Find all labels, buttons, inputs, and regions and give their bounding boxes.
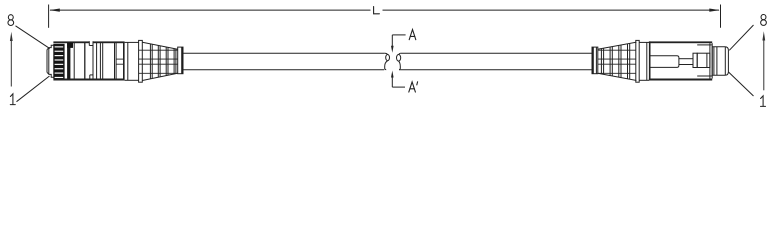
left boot taper outline (142, 42, 177, 80)
label 8 (right) (761, 15, 767, 26)
right plug body: bottom edge (649, 79, 712, 81)
right boot rib pairs (601, 43, 629, 79)
left plug body: bottom edge (53, 79, 124, 81)
label L (374, 7, 380, 14)
dimension L: left arrowhead (49, 9, 59, 12)
label 8 (left) (8, 15, 14, 26)
leader 8 to top pin (left) (16, 26, 50, 49)
pin order arrow (right) (763, 38, 765, 90)
leader 1 to bottom pin (left) (17, 76, 50, 102)
left boot raised ring (139, 40, 143, 82)
cable break right squiggle (397, 53, 401, 69)
section line A' (bottom) (392, 77, 405, 87)
right plug nose cap (712, 47, 728, 75)
label 1 (right) (761, 96, 766, 107)
section line A (top) (392, 35, 405, 47)
left plug: nose outer face (47, 45, 54, 77)
cable left segment top line (183, 52, 384, 54)
left plug contact carrier wall (67, 43, 70, 79)
right plug latch bracket (693, 45, 712, 76)
right plug latch lever (651, 56, 694, 68)
left boot end cap (178, 47, 183, 74)
right boot smooth section (639, 42, 649, 80)
dimension L: line left segment (50, 9, 371, 11)
label 1 (left) (10, 94, 15, 105)
left plug contact block with 8 pins (53, 44, 64, 79)
cable right segment top line (401, 52, 593, 54)
cable break left squiggle (384, 53, 389, 69)
leader 8 to top pin (right) (729, 25, 753, 50)
leader 1 to bottom pin (right) (729, 72, 754, 96)
left plug body: top edge (with latch notch gap) (53, 41, 89, 43)
pin order arrow (left) (10, 38, 12, 87)
dimension L: right extension line (720, 5, 722, 28)
right plug body: front verticals (710, 43, 712, 78)
dimension L: line right segment (383, 9, 720, 11)
left boot rungs (116, 50, 178, 73)
right plug body: top edge (649, 41, 712, 43)
left boot smooth section (125, 42, 139, 80)
left plug latch base block (67, 43, 73, 48)
left plug body interior verticals (74, 41, 124, 78)
right boot rungs (598, 50, 636, 73)
right boot taper outline (598, 42, 637, 80)
dimension L: right arrowhead (709, 9, 719, 12)
right boot end cap (592, 47, 598, 74)
label A (409, 30, 416, 40)
label A' (409, 82, 418, 92)
right plug body: left edge (649, 41, 651, 80)
cable left segment bottom line (183, 69, 384, 71)
left boot rib pairs (150, 44, 176, 79)
dimension L: left extension line (48, 5, 50, 28)
right boot raised ring (636, 40, 639, 82)
cable right segment bottom line (401, 69, 593, 71)
